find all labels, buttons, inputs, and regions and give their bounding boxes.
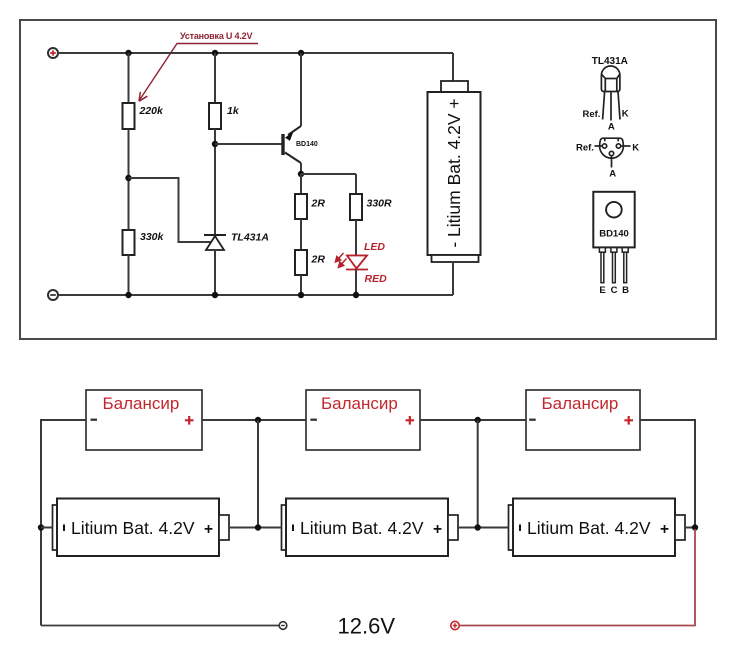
wire output plus (red) <box>459 529 695 626</box>
wire 2R top <box>300 174 302 194</box>
svg-text:Litium Bat. 4.2V: Litium Bat. 4.2V <box>527 518 651 538</box>
wire node down to battery link 2 <box>477 420 479 528</box>
node top rail / R1 <box>125 50 131 56</box>
svg-text:2R: 2R <box>311 254 326 266</box>
svg-text:TL431A: TL431A <box>231 231 269 243</box>
wire 330R to LED <box>355 220 357 255</box>
svg-text:+: + <box>433 521 442 538</box>
wire R2 top <box>214 53 216 103</box>
terminal BAT- <box>48 290 58 300</box>
svg-text:330k: 330k <box>140 231 165 243</box>
svg-text:K: K <box>632 142 639 153</box>
BD140 leads <box>599 248 628 283</box>
LED arrows <box>335 253 346 268</box>
wire battery top <box>452 53 454 81</box>
svg-text:Балансир: Балансир <box>103 394 180 413</box>
svg-text:Ref.: Ref. <box>576 142 594 153</box>
node right rail <box>692 524 698 530</box>
node divider tap <box>125 175 131 181</box>
wire 2R bottom <box>300 275 302 295</box>
svg-text:Litium Bat. 4.2V: Litium Bat. 4.2V <box>71 518 195 538</box>
wire left rail to battery1 <box>41 527 53 529</box>
wire balancer1 plus to balancer2 minus <box>202 419 306 421</box>
schematic frame <box>20 20 716 339</box>
node between balancer1-2 <box>255 417 261 423</box>
wire R1 bottom <box>128 129 130 230</box>
svg-text:Установка U 4.2V: Установка U 4.2V <box>180 31 252 41</box>
wire base drive <box>215 143 282 145</box>
wire ref tap to TL431 <box>129 178 212 242</box>
balancer 2 minus <box>310 419 317 421</box>
balancer 3 box <box>526 390 640 450</box>
node battery link 1 <box>255 524 261 530</box>
svg-text:RED: RED <box>365 273 388 285</box>
pin labels bottom view <box>576 142 639 179</box>
balancer 3 minus <box>529 419 536 421</box>
svg-text:LED: LED <box>364 241 385 253</box>
svg-text:Балансир: Балансир <box>542 394 619 413</box>
transistor Q1 BD140 <box>281 53 301 174</box>
wire output minus <box>41 625 279 627</box>
resistor R4 2R <box>295 194 307 219</box>
battery B1 Litium Bat. 4.2V <box>53 499 230 557</box>
shunt regulator U1 TL431A <box>204 235 226 250</box>
svg-text:A: A <box>608 122 615 133</box>
BD140 TO-126 package <box>593 192 634 248</box>
pin labels side view <box>583 109 629 133</box>
svg-text:Ref.: Ref. <box>583 109 601 120</box>
node left rail battery1 <box>38 524 44 530</box>
svg-text:TL431A: TL431A <box>592 56 628 67</box>
resistor R1 220k <box>123 103 135 129</box>
terminal output plus <box>451 621 459 629</box>
wire R3 bottom <box>128 255 130 295</box>
svg-text:1k: 1k <box>227 105 240 117</box>
balancer 2 plus <box>406 416 415 425</box>
terminal BAT+ <box>48 48 58 58</box>
svg-text:B: B <box>622 285 629 296</box>
battery B2 Litium Bat. 4.2V <box>282 499 459 557</box>
svg-text:2R: 2R <box>311 198 326 210</box>
resistor R3 330k <box>123 230 135 255</box>
balancer 1 plus <box>185 416 194 425</box>
svg-text:+: + <box>204 521 213 538</box>
node top rail / R2 <box>212 50 218 56</box>
LED D1 red <box>346 256 368 270</box>
TL431A TO-92 side view <box>601 66 620 121</box>
wire TL431 anode <box>214 250 216 295</box>
TL431A TO-92 bottom view <box>595 138 631 167</box>
svg-text:- Litium Bat. 4.2V +: - Litium Bat. 4.2V + <box>444 98 464 247</box>
wire balancer3 plus <box>640 420 695 528</box>
balancer 3 plus <box>624 416 633 425</box>
node battery link 2 <box>475 524 481 530</box>
terminal output minus <box>279 622 287 630</box>
balancer 1 box <box>86 390 202 450</box>
wire battery2 plus to battery3 minus <box>458 527 509 529</box>
svg-text:12.6V: 12.6V <box>338 614 396 639</box>
svg-text:BD140: BD140 <box>599 229 629 240</box>
node collector <box>298 171 304 177</box>
svg-text:BD140: BD140 <box>296 141 318 148</box>
label Установка U 4.2V with leader arrow <box>139 31 258 101</box>
wire battery3 plus to right rail <box>685 527 695 529</box>
node bottom rail 2R <box>298 292 304 298</box>
wire battery1 plus to battery2 minus <box>229 527 282 529</box>
svg-text:330R: 330R <box>367 198 393 210</box>
battery B3 Litium Bat. 4.2V <box>509 499 686 557</box>
node bottom rail R3 <box>125 292 131 298</box>
node bottom rail LED <box>353 292 359 298</box>
wire node down to battery link 1 <box>257 420 259 528</box>
node between balancer2-3 <box>475 417 481 423</box>
wire collector to 330R branch <box>301 173 356 175</box>
wire balancer2 plus to balancer3 minus <box>420 419 526 421</box>
BD140 pin labels E C B <box>599 285 629 296</box>
svg-text:+: + <box>660 521 669 538</box>
svg-text:E: E <box>599 285 605 296</box>
node top rail / Q1 emitter <box>298 50 304 56</box>
svg-text:A: A <box>609 169 616 180</box>
wire 330R top <box>355 174 357 194</box>
svg-text:Litium Bat. 4.2V: Litium Bat. 4.2V <box>300 518 424 538</box>
resistor R5 2R <box>295 250 307 275</box>
wire bottom rail <box>58 294 453 296</box>
node base drive <box>212 141 218 147</box>
svg-text:Балансир: Балансир <box>321 394 398 413</box>
resistor R2 1k <box>209 103 221 129</box>
node bottom rail TL431 <box>212 292 218 298</box>
wire between 2R <box>300 219 302 250</box>
svg-text:C: C <box>611 285 618 296</box>
battery B0 Litium Bat. 4.2V (vertical) <box>428 81 481 262</box>
svg-text:K: K <box>622 109 629 120</box>
wire balancer1 minus <box>41 420 86 626</box>
wire R2 bottom to TL431 <box>214 129 216 235</box>
balancer 2 box <box>306 390 420 450</box>
resistor R6 330R <box>350 194 362 220</box>
wire top rail <box>58 52 453 54</box>
wire battery bottom <box>452 262 454 295</box>
svg-text:220k: 220k <box>139 105 165 117</box>
wire LED bottom <box>355 270 357 296</box>
balancer 1 minus <box>91 419 98 421</box>
wire R1 top <box>128 53 130 103</box>
